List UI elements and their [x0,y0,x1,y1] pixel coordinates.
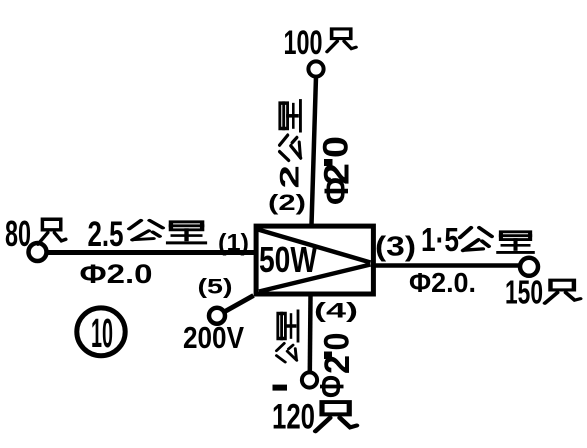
label 1公里 (rotated) [273,385,288,391]
box internal diagonal bottom [259,265,371,292]
box internal diagonal top [258,230,371,263]
svg-text:1·5: 1·5 [421,221,459,258]
wire branch 2 (top) [312,77,317,226]
terminal right lamp node [520,258,538,276]
svg-text:2: 2 [275,165,305,189]
svg-text:Φ: Φ [314,375,352,398]
svg-text:100: 100 [284,24,323,62]
svg-text:2.5: 2.5 [88,215,124,254]
svg-text:(3): (3) [375,231,416,262]
wire branch 4 (bottom) [308,296,313,373]
svg-text:Φ2.0: Φ2.0 [80,259,153,289]
terminal top lamp node [308,61,323,76]
distribution box U1 [256,226,373,294]
svg-text:Φ2.0.: Φ2.0. [409,267,476,298]
svg-text:(4): (4) [314,300,358,323]
wire branch 1 (left) [46,250,254,255]
terminal left lamp node [29,243,47,261]
figure number circle 10 [77,308,125,356]
svg-text:150: 150 [505,274,543,311]
svg-text:(2): (2) [268,190,306,215]
svg-text:2: 2 [318,163,357,185]
svg-text:80: 80 [5,213,31,254]
svg-text:(5): (5) [198,276,233,299]
wire branch 3 (right) [373,263,520,268]
svg-text:10: 10 [91,310,113,356]
svg-text:0: 0 [318,333,357,351]
wire branch 5 (source feed) [224,296,254,313]
svg-text:120: 120 [272,398,315,437]
terminal bottom lamp node [302,372,317,387]
svg-text:50W: 50W [259,239,317,280]
svg-text:(1): (1) [218,230,249,257]
terminal source node [209,308,225,324]
svg-text:200V: 200V [183,320,244,355]
svg-text:0: 0 [317,136,356,158]
svg-text:2: 2 [318,355,357,374]
